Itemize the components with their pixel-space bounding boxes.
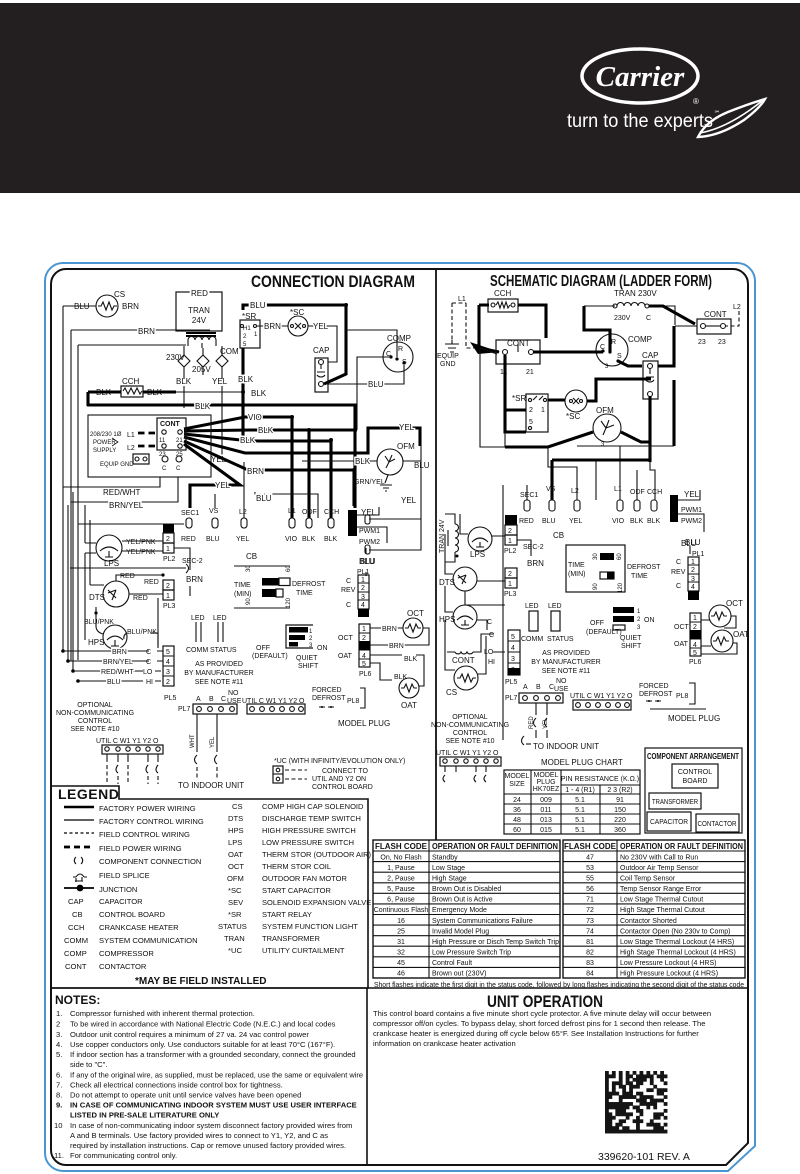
solenoid CS <box>96 290 125 317</box>
label MODEL PLUG schematic <box>650 709 720 723</box>
svg-text:YEL: YEL <box>684 490 700 499</box>
svg-text:RED: RED <box>120 573 135 580</box>
svg-text:2 3 (R2): 2 3 (R2) <box>607 787 632 794</box>
svg-text:4.: 4. <box>56 1040 62 1049</box>
svg-text:FACTORY POWER WIRING: FACTORY POWER WIRING <box>99 804 196 813</box>
junction dots <box>61 573 164 682</box>
svg-text:Use copper conductors only. U: Use copper conductors only. Use conducto… <box>70 1040 335 1049</box>
svg-text:11: 11 <box>159 438 166 444</box>
svg-text:60: 60 <box>513 827 521 834</box>
notes title <box>55 993 100 1007</box>
wire YEL from COM <box>212 377 228 458</box>
svg-text:2: 2 <box>56 1020 60 1029</box>
svg-text:OAT: OAT <box>228 850 243 859</box>
legend factory control wiring <box>64 817 204 826</box>
label COMM schematic <box>521 636 543 643</box>
svg-text:CCH: CCH <box>324 509 339 516</box>
svg-text:1: 1 <box>254 332 258 338</box>
svg-text:L1: L1 <box>288 508 296 515</box>
wire BLU OFM to PWM2 <box>365 446 421 554</box>
svg-text:NOTES:: NOTES: <box>55 993 100 1007</box>
svg-text:48: 48 <box>513 817 521 824</box>
svg-text:SCHEMATIC DIAGRAM (LADDER FOR: SCHEMATIC DIAGRAM (LADDER FORM) <box>490 273 712 290</box>
connector PL2 <box>163 524 176 563</box>
tagline <box>567 110 720 132</box>
svg-text:60: 60 <box>286 565 292 572</box>
wire SR to SC to CAP <box>548 379 651 401</box>
svg-text:PL2: PL2 <box>504 548 517 555</box>
svg-text:BLK: BLK <box>647 518 661 525</box>
left rail 2 <box>68 330 73 671</box>
label STATUS <box>210 647 237 654</box>
svg-text:MODEL: MODEL <box>505 773 530 780</box>
svg-text:LEGEND: LEGEND <box>58 786 119 802</box>
svg-text:5.1: 5.1 <box>575 827 585 834</box>
svg-text:2: 2 <box>691 567 695 574</box>
field wire L1 <box>127 432 157 439</box>
svg-text:NO: NO <box>556 678 567 685</box>
svg-text:16: 16 <box>397 918 405 925</box>
svg-text:FIELD POWER WIRING: FIELD POWER WIRING <box>99 844 182 853</box>
contactor CONT left schematic <box>480 339 540 376</box>
switch LPS schematic <box>460 514 505 559</box>
svg-text:24V: 24V <box>192 316 207 325</box>
connector UTIL strip <box>242 698 305 714</box>
wire RED loop to SR <box>221 295 223 297</box>
svg-text:2: 2 <box>508 571 512 578</box>
svg-text:DISCHARGE TEMP SWITCH: DISCHARGE TEMP SWITCH <box>262 814 361 823</box>
svg-text:1: 1 <box>693 615 697 622</box>
defrost time switch schematic <box>566 545 661 593</box>
forced defrost schematic <box>639 683 695 704</box>
svg-text:QUIET: QUIET <box>296 655 318 662</box>
svg-text:TO INDOOR UNIT: TO INDOOR UNIT <box>178 781 244 790</box>
svg-text:C: C <box>162 466 167 472</box>
svg-text:CAPACITOR: CAPACITOR <box>650 819 688 826</box>
svg-text:OCT: OCT <box>338 635 354 642</box>
svg-text:Contactor Open (No 230v to Com: Contactor Open (No 230v to Comp) <box>620 928 731 935</box>
thermistor OAT <box>370 655 424 710</box>
svg-text:OUTDOOR FAN MOTOR: OUTDOOR FAN MOTOR <box>262 874 347 883</box>
svg-text:AS PROVIDED: AS PROVIDED <box>542 650 590 657</box>
svg-text:TIME: TIME <box>296 590 313 597</box>
svg-text:5: 5 <box>693 650 697 657</box>
svg-text:UTIL C W1 Y1 Y2 O: UTIL C W1 Y1 Y2 O <box>570 693 633 700</box>
legend UC <box>228 946 345 955</box>
svg-text:YEL: YEL <box>399 423 415 432</box>
svg-text:208/230 1Ø: 208/230 1Ø <box>90 432 122 438</box>
svg-text:CONNECTION DIAGRAM: CONNECTION DIAGRAM <box>251 272 415 291</box>
capacitor CAP schematic <box>642 351 658 399</box>
switch HPS <box>84 607 158 649</box>
legend COMP <box>64 949 154 958</box>
svg-text:120: 120 <box>286 597 292 608</box>
svg-text:START RELAY: START RELAY <box>262 910 312 919</box>
svg-text:6, Pause: 6, Pause <box>387 897 415 904</box>
svg-text:YEL/PNK: YEL/PNK <box>126 549 156 556</box>
svg-text:VIO: VIO <box>612 518 625 525</box>
thermistor OAT schematic <box>701 630 749 655</box>
field wire L2 schematic <box>675 304 741 326</box>
inner black border <box>51 269 748 1165</box>
svg-text:SEE NOTE #10: SEE NOTE #10 <box>445 738 494 745</box>
svg-text:82: 82 <box>586 950 594 957</box>
svg-text:TRAN 230V: TRAN 230V <box>614 289 657 298</box>
svg-text:FLASH CODE: FLASH CODE <box>375 842 428 851</box>
svg-text:(MIN): (MIN) <box>568 571 586 578</box>
svg-text:BLK: BLK <box>195 402 211 411</box>
legend CONT <box>65 962 147 971</box>
notes and unit-op divider <box>51 988 748 1164</box>
svg-text:FACTORY CONTROL WIRING: FACTORY CONTROL WIRING <box>99 817 204 826</box>
svg-text:LED: LED <box>191 615 205 622</box>
wire rail to CONT23 <box>649 306 695 324</box>
svg-text:Invalid Model Plug: Invalid Model Plug <box>432 928 489 935</box>
svg-text:009: 009 <box>540 797 552 804</box>
svg-text:OCT: OCT <box>407 609 424 618</box>
svg-text:11.: 11. <box>54 1151 64 1160</box>
connector PWM schematic <box>670 490 704 554</box>
svg-text:150: 150 <box>614 807 626 814</box>
wire COMP R up <box>346 330 397 357</box>
svg-text:BLU: BLU <box>206 536 220 543</box>
optional control note <box>56 702 134 733</box>
svg-text:BLK: BLK <box>404 656 418 663</box>
svg-text:DEFROST: DEFROST <box>312 695 346 702</box>
coil CONT schematic <box>447 646 481 665</box>
svg-text:CONT: CONT <box>704 310 727 319</box>
svg-text:SEE NOTE #11: SEE NOTE #11 <box>542 668 591 675</box>
legend CB <box>72 910 165 919</box>
svg-text:Continuous Flash: Continuous Flash <box>374 907 429 914</box>
svg-text:CRANKCASE HEATER: CRANKCASE HEATER <box>99 923 179 932</box>
svg-text:COMP: COMP <box>64 949 87 958</box>
svg-text:High Stage Thermal Cutout: High Stage Thermal Cutout <box>620 907 705 914</box>
svg-text:On, No Flash: On, No Flash <box>380 854 421 861</box>
svg-text:L2: L2 <box>733 304 741 311</box>
legend junction <box>64 885 137 894</box>
legend component connection <box>74 857 201 866</box>
svg-text:56: 56 <box>586 886 594 893</box>
svg-text:B: B <box>209 696 214 703</box>
svg-text:*SR: *SR <box>242 312 256 321</box>
svg-text:23: 23 <box>718 339 726 346</box>
connector PL5 schematic <box>505 630 520 686</box>
svg-text:BOARD: BOARD <box>683 778 708 785</box>
svg-text:SEE NOTE #10: SEE NOTE #10 <box>70 726 119 733</box>
svg-text:2, Pause: 2, Pause <box>387 876 415 883</box>
svg-text:C: C <box>221 696 226 703</box>
svg-text:25: 25 <box>397 928 405 935</box>
label TO INDOOR UNIT <box>178 781 244 790</box>
wire CAP bottom down <box>621 380 674 462</box>
svg-text:2: 2 <box>166 536 170 543</box>
svg-text:REV: REV <box>671 569 686 576</box>
svg-text:2: 2 <box>309 636 313 642</box>
svg-text:72: 72 <box>586 907 594 914</box>
wire TRAN to top rail <box>584 306 675 321</box>
legend TRAN <box>224 934 321 943</box>
contactor CONT right <box>697 310 731 346</box>
svg-text:7.: 7. <box>56 1081 62 1090</box>
svg-text:PL6: PL6 <box>689 659 702 666</box>
svg-text:91: 91 <box>616 797 624 804</box>
wire CCH loop bold <box>470 305 546 354</box>
svg-text:4: 4 <box>693 642 697 649</box>
wire SEC2 feed <box>70 564 189 573</box>
svg-text:RED: RED <box>144 579 159 586</box>
svg-text:QUIET: QUIET <box>620 635 642 642</box>
title connection diagram <box>251 272 415 291</box>
svg-text:BY MANUFACTURER: BY MANUFACTURER <box>184 670 254 677</box>
svg-text:YEL: YEL <box>212 377 228 386</box>
svg-text:High Pressure Lockout (4 HRS): High Pressure Lockout (4 HRS) <box>620 971 718 978</box>
svg-text:YEL: YEL <box>210 736 216 748</box>
wires to indoor unit <box>190 714 217 779</box>
svg-text:A: A <box>523 684 528 691</box>
svg-text:RED: RED <box>191 289 208 298</box>
svg-text:MODEL PLUG: MODEL PLUG <box>668 714 720 723</box>
svg-text:OCT: OCT <box>228 862 244 871</box>
svg-text:23: 23 <box>698 339 706 346</box>
part number <box>598 1151 690 1163</box>
svg-text:THERM STOR (OUTDOOR AIR): THERM STOR (OUTDOOR AIR) <box>262 850 372 859</box>
power supply label <box>90 432 122 454</box>
svg-text:LISTED IN PRE-SALE LITERATURE: LISTED IN PRE-SALE LITERATURE ONLY <box>70 1111 219 1120</box>
title schematic diagram <box>490 273 712 290</box>
svg-text:1: 1 <box>508 581 512 588</box>
flash code table left <box>373 840 560 978</box>
svg-text:USE: USE <box>554 686 569 693</box>
svg-text:compressor off/on cycles. To: compressor off/on cycles. To bypass dela… <box>373 1019 705 1028</box>
svg-text:(DEFAULT): (DEFAULT) <box>252 653 288 660</box>
wire L1 rail to CCH <box>466 303 474 348</box>
quiet shift switch <box>252 625 328 670</box>
legend CS <box>232 802 364 811</box>
svg-text:LO: LO <box>143 669 153 676</box>
svg-text:C: C <box>676 559 681 566</box>
svg-text:5: 5 <box>529 419 533 426</box>
svg-text:*SC: *SC <box>566 412 580 421</box>
svg-text:BLU/PNK: BLU/PNK <box>84 619 114 626</box>
svg-text:C: C <box>646 315 651 322</box>
svg-text:This control board contains a: This control board contains a five minut… <box>373 1009 711 1018</box>
svg-text:ON: ON <box>644 617 655 624</box>
svg-text:*UC (WITH INFINITY/EVOLUTION: *UC (WITH INFINITY/EVOLUTION ONLY) <box>274 758 405 765</box>
svg-text:FLASH CODE: FLASH CODE <box>564 842 617 851</box>
svg-text:BLU: BLU <box>681 539 697 548</box>
leaf icon <box>698 99 765 137</box>
svg-text:24: 24 <box>513 797 521 804</box>
svg-text:STATUS: STATUS <box>210 647 237 654</box>
svg-text:21: 21 <box>526 369 534 376</box>
svg-text:CAP: CAP <box>313 346 329 355</box>
svg-text:CB: CB <box>72 910 83 919</box>
svg-text:Carrier: Carrier <box>596 61 685 93</box>
svg-text:TIME: TIME <box>631 573 648 580</box>
svg-text:PL3: PL3 <box>163 603 176 610</box>
svg-text:SOLENOID EXPANSION VALVE: SOLENOID EXPANSION VALVE <box>262 898 371 907</box>
svg-text:THERM STOR COIL: THERM STOR COIL <box>262 862 331 871</box>
svg-text:TO INDOOR UNIT: TO INDOOR UNIT <box>533 742 599 751</box>
svg-text:DEFROST: DEFROST <box>627 564 661 571</box>
svg-text:STATUS: STATUS <box>218 922 247 931</box>
wire BLK from 230V <box>176 377 192 408</box>
svg-text:84: 84 <box>586 971 594 978</box>
svg-text:PL7: PL7 <box>178 706 191 713</box>
legend SC <box>228 886 331 895</box>
legend field power wiring <box>64 844 182 853</box>
svg-text:Temp Sensor Range Error: Temp Sensor Range Error <box>620 886 702 893</box>
svg-text:Compressor furnished with inh: Compressor furnished with inherent therm… <box>70 1009 255 1018</box>
svg-text:turn to the experts: turn to the experts <box>567 111 713 132</box>
svg-text:Brown out (230V): Brown out (230V) <box>432 971 486 978</box>
svg-text:RED: RED <box>133 595 148 602</box>
svg-text:LOW PRESSURE SWITCH: LOW PRESSURE SWITCH <box>262 838 354 847</box>
svg-text:PL3: PL3 <box>504 591 517 598</box>
svg-text:PL5: PL5 <box>164 695 177 702</box>
svg-text:SHIFT: SHIFT <box>621 643 642 650</box>
terminal VS <box>206 508 220 543</box>
svg-text:OAT: OAT <box>674 641 689 648</box>
svg-text:OFM: OFM <box>227 874 244 883</box>
svg-text:4: 4 <box>166 659 170 666</box>
svg-text:90: 90 <box>593 583 599 590</box>
forced defrost pins <box>312 687 365 708</box>
svg-text:COMP HIGH CAP SOLENOID: COMP HIGH CAP SOLENOID <box>262 802 364 811</box>
svg-text:CONTROL: CONTROL <box>678 769 712 776</box>
svg-text:2: 2 <box>529 407 533 414</box>
labels C LO HI schematic <box>481 619 505 666</box>
connector PL7 <box>178 690 242 714</box>
legend STATUS <box>218 922 358 931</box>
svg-text:B: B <box>536 684 541 691</box>
wire YEL/PNK 1 <box>122 539 163 546</box>
svg-text:RED: RED <box>181 536 196 543</box>
solenoid CS schematic <box>445 620 486 697</box>
svg-text:BLU: BLU <box>359 557 375 566</box>
svg-text:PWM1: PWM1 <box>681 507 702 514</box>
fan motor OFM schematic <box>593 406 621 448</box>
svg-text:AS PROVIDED: AS PROVIDED <box>195 661 243 668</box>
svg-text:COMP: COMP <box>387 334 411 343</box>
svg-text:Low Stage: Low Stage <box>432 865 465 872</box>
svg-text:60: 60 <box>617 553 623 560</box>
model plug chart table <box>504 770 640 834</box>
wire CONT11 down to SR <box>505 355 526 432</box>
wire BLK fan2 <box>184 426 357 518</box>
svg-text:S: S <box>617 353 622 360</box>
board CB label <box>246 552 257 561</box>
svg-text:®: ® <box>693 97 699 106</box>
svg-text:YEL: YEL <box>569 518 582 525</box>
svg-text:OFF: OFF <box>256 645 270 652</box>
svg-text:LED: LED <box>213 615 227 622</box>
svg-text:YEL: YEL <box>236 536 249 543</box>
svg-text:2: 2 <box>166 679 170 686</box>
svg-text:45: 45 <box>397 960 405 967</box>
svg-text:OAT: OAT <box>338 653 353 660</box>
svg-text:LPS: LPS <box>228 838 242 847</box>
svg-text:230V: 230V <box>166 353 185 362</box>
svg-text:High Pressure or Disch Temp Sw: High Pressure or Disch Temp Switch Trip <box>432 939 559 946</box>
svg-text:4: 4 <box>361 602 365 609</box>
svg-text:TRAN: TRAN <box>188 306 210 315</box>
wire BRN/YEL <box>71 477 178 510</box>
svg-text:CONT: CONT <box>452 656 475 665</box>
svg-text:BLK: BLK <box>355 457 371 466</box>
wire CONT21 to COMP <box>533 350 603 353</box>
svg-text:BLK: BLK <box>302 536 316 543</box>
svg-text:CONT: CONT <box>160 421 181 428</box>
svg-text:CONTROL: CONTROL <box>453 730 487 737</box>
legend HPS <box>228 826 356 835</box>
terminal L2 schematic <box>569 488 582 525</box>
svg-text:TRANSFORMER: TRANSFORMER <box>262 934 321 943</box>
svg-text:PWM2: PWM2 <box>359 539 380 546</box>
wire BRN SR to SC <box>257 322 288 331</box>
optional UTIL strip schematic <box>436 750 501 782</box>
svg-text:If indoor section has a transf: If indoor section has a transformer with… <box>70 1050 356 1059</box>
legend factory power wiring <box>64 804 196 813</box>
note as provided <box>184 661 254 686</box>
defrost time switch <box>234 565 326 608</box>
left rail 1 <box>62 306 64 651</box>
start cap SC schematic <box>565 390 587 421</box>
svg-text:OFM: OFM <box>397 442 415 451</box>
svg-text:83: 83 <box>586 960 594 967</box>
notes list <box>54 1009 363 1160</box>
legend box <box>52 786 368 988</box>
svg-text:YEL: YEL <box>313 322 329 331</box>
svg-text:BRN: BRN <box>382 626 397 633</box>
svg-text:36: 36 <box>513 807 521 814</box>
svg-text:2: 2 <box>637 617 641 623</box>
connector PWM <box>348 507 387 576</box>
svg-text:SYSTEM FUNCTION LIGHT: SYSTEM FUNCTION LIGHT <box>262 922 358 931</box>
connector PL6 <box>338 624 372 678</box>
svg-text:CCH: CCH <box>122 377 140 386</box>
svg-text:BRN: BRN <box>122 302 139 311</box>
svg-text:CONNECT TO: CONNECT TO <box>322 768 368 775</box>
svg-text:RED/WHT: RED/WHT <box>101 669 134 676</box>
svg-text:90: 90 <box>246 598 252 605</box>
model plug chart title <box>541 758 623 767</box>
svg-text:1: 1 <box>508 538 512 545</box>
svg-text:CONTROL BOARD: CONTROL BOARD <box>99 910 165 919</box>
svg-text:1: 1 <box>362 626 366 633</box>
svg-text:220: 220 <box>614 817 626 824</box>
svg-text:PL6: PL6 <box>359 671 372 678</box>
svg-text:DEFROST: DEFROST <box>639 691 673 698</box>
junction terminals C C <box>162 456 182 472</box>
svg-text:74: 74 <box>586 928 594 935</box>
svg-text:2: 2 <box>693 624 697 631</box>
svg-text:FORCED: FORCED <box>312 687 342 694</box>
svg-text:1: 1 <box>361 577 365 584</box>
svg-text:VS: VS <box>546 486 556 493</box>
svg-text:DTS: DTS <box>228 814 243 823</box>
connector PL1 <box>341 557 375 617</box>
fan motor OFM <box>354 442 430 505</box>
label STATUS schematic <box>547 636 574 643</box>
legend OCT <box>228 862 331 871</box>
svg-text:BLK: BLK <box>630 518 644 525</box>
svg-text:No 230V with Call to Run: No 230V with Call to Run <box>620 854 698 861</box>
legend CCH <box>68 923 179 932</box>
legend field splice <box>73 871 150 882</box>
terminal SEC1 schematic <box>519 492 538 525</box>
